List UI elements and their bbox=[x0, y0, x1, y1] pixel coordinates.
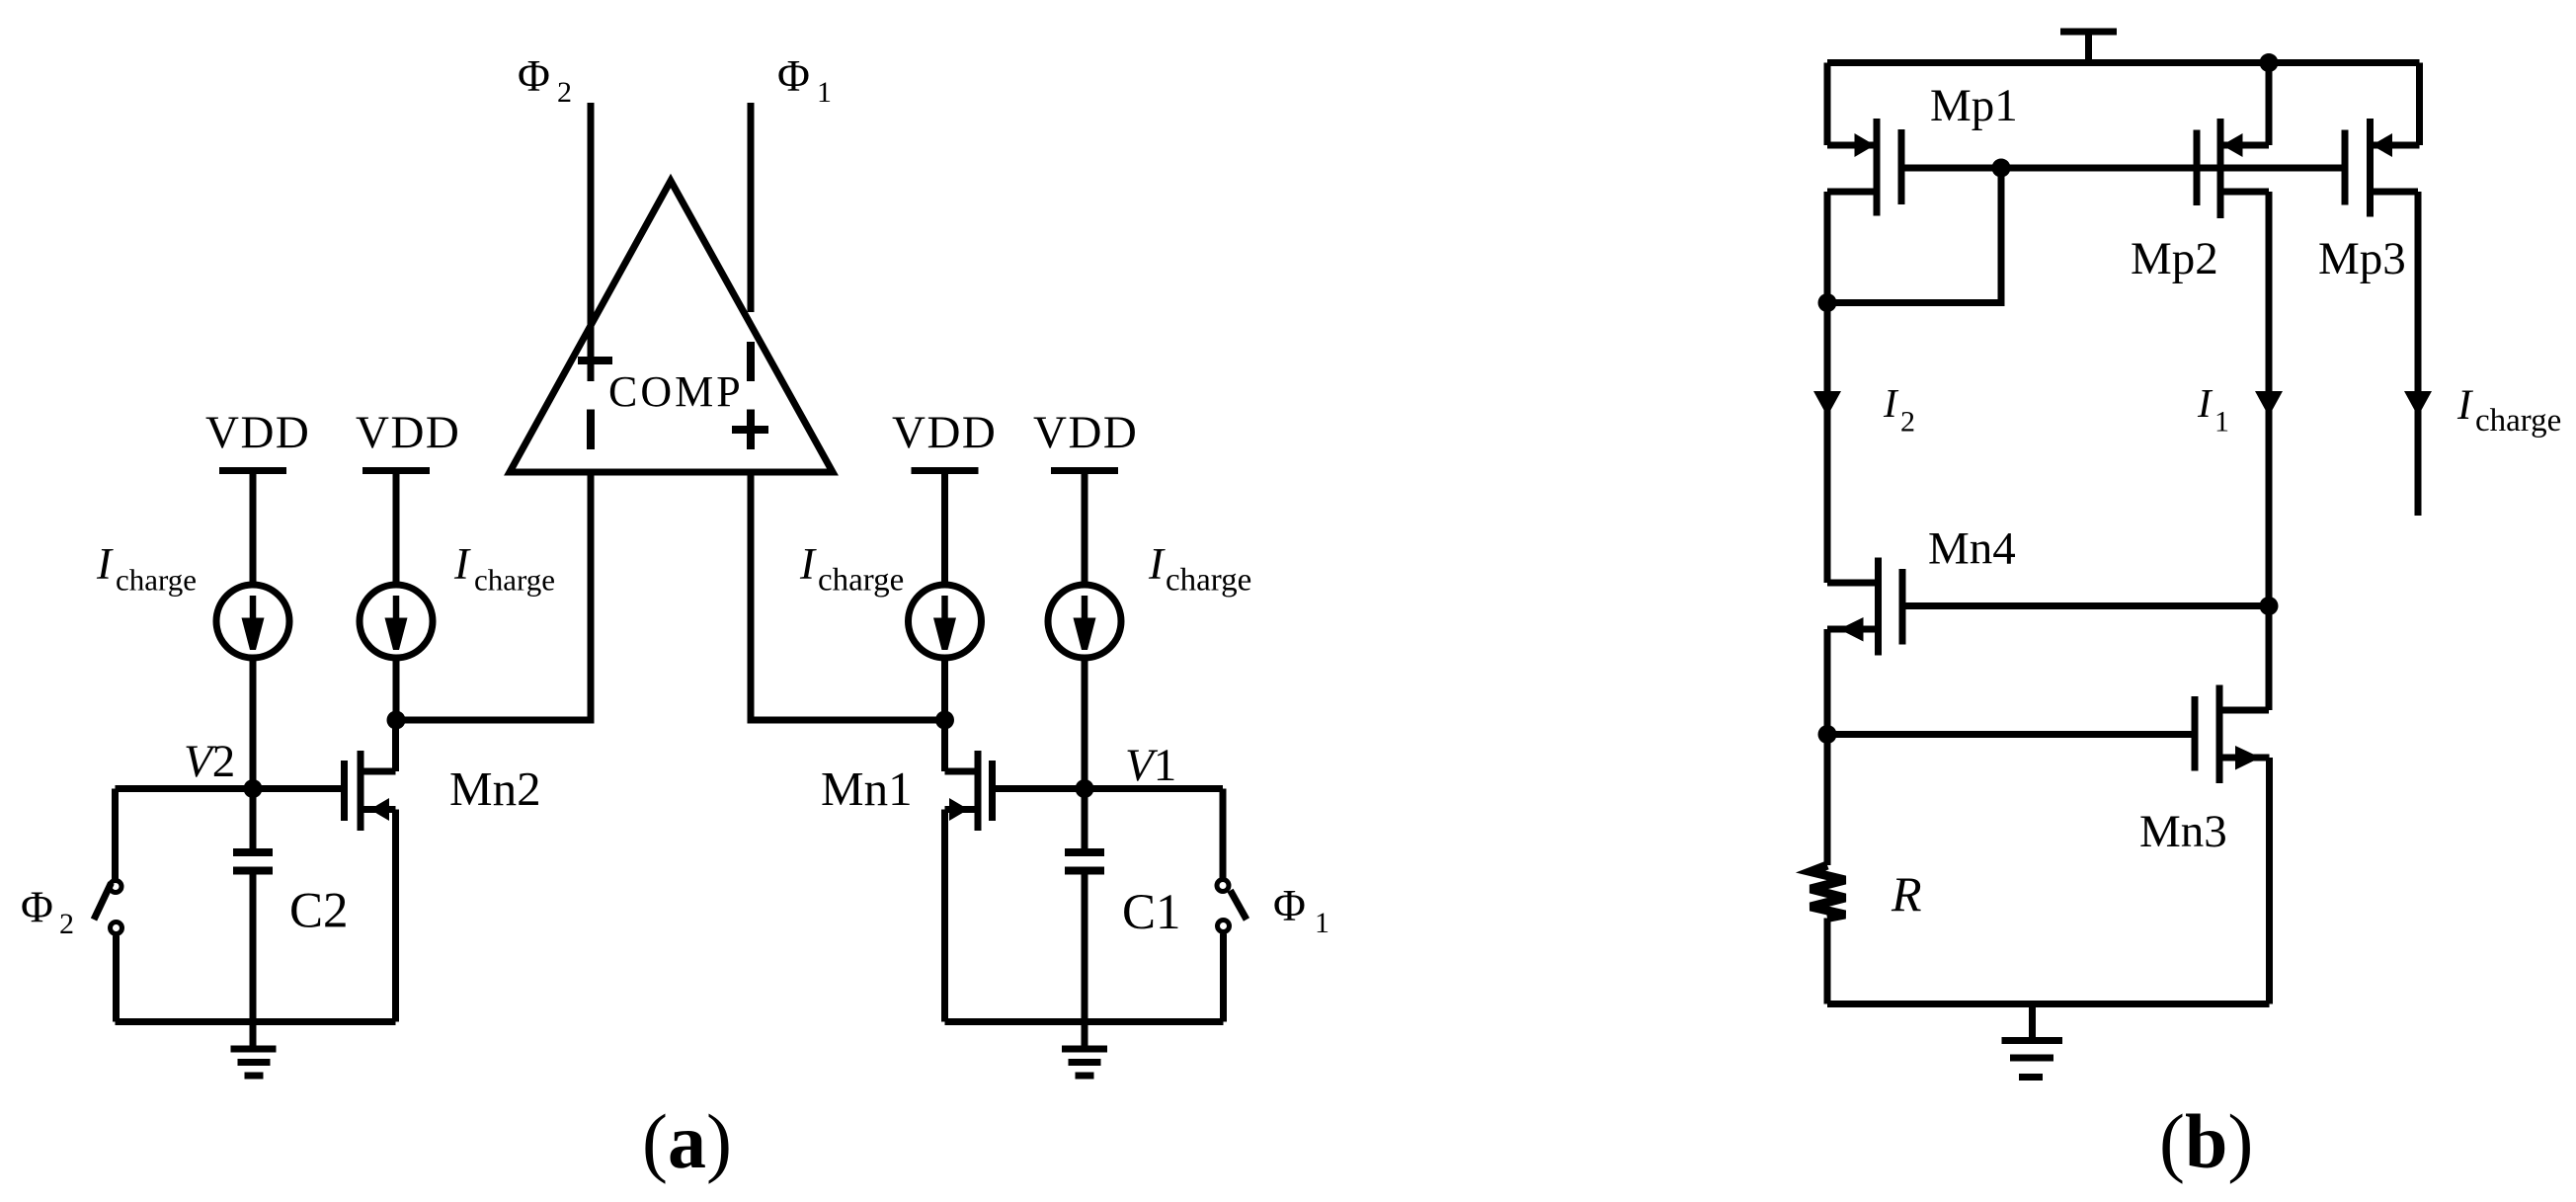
wire V1 horizontal bbox=[993, 785, 1224, 792]
label PHI1 top bbox=[777, 51, 832, 109]
svg-text:2: 2 bbox=[1900, 406, 1915, 439]
svg-text:V1: V1 bbox=[1125, 740, 1176, 791]
power VDD symbol 4 bbox=[1033, 407, 1138, 585]
svg-text:VDD: VDD bbox=[892, 407, 997, 458]
svg-text:Φ: Φ bbox=[21, 883, 53, 932]
wire rail to Mp2 source bbox=[2266, 63, 2273, 146]
wire Mp1 diode connection bbox=[1827, 168, 2001, 303]
svg-text:1: 1 bbox=[2214, 406, 2229, 439]
wire bottom rail right bbox=[945, 1018, 1224, 1025]
current source Icharge 4 bbox=[1048, 585, 1121, 788]
svg-text:(a): (a) bbox=[642, 1098, 732, 1184]
svg-text:VDD: VDD bbox=[1033, 407, 1138, 458]
wire Mn4 gate to I1 bbox=[1902, 602, 2269, 609]
capacitor C2 bbox=[233, 789, 273, 1022]
switch PHI1 bbox=[1217, 789, 1247, 1022]
wire top VDD rail bbox=[1827, 59, 2420, 66]
wire comparator right input down to Mn1 drain node bbox=[751, 472, 945, 720]
label Icharge 4 bbox=[1148, 539, 1251, 599]
node junction dot V1 bbox=[1076, 779, 1094, 798]
svg-text:I: I bbox=[96, 539, 114, 589]
wire gate bus Mp1-Mp2-Mp3 bbox=[1901, 165, 2345, 172]
transistor Mp3 bbox=[2345, 119, 2420, 217]
node junction dot V2 bbox=[244, 779, 263, 798]
node junction dot Mn4 gate bbox=[2260, 597, 2279, 615]
arrow I2 current direction bbox=[1813, 391, 1841, 417]
svg-text:I: I bbox=[1883, 380, 1899, 426]
transistor Mn4 bbox=[1827, 558, 1902, 866]
svg-text:Φ: Φ bbox=[777, 51, 810, 101]
wire rail to Mp1 source bbox=[1824, 63, 1831, 146]
label I1 bbox=[2197, 380, 2229, 439]
svg-text:COMP: COMP bbox=[608, 367, 744, 416]
node junction dot top rail bbox=[2260, 53, 2279, 72]
arrow Icharge current direction bbox=[2404, 391, 2432, 417]
node PHI2 clock input line bbox=[578, 103, 612, 449]
svg-text:charge: charge bbox=[474, 563, 555, 598]
label I2 bbox=[1883, 380, 1915, 439]
svg-text:I: I bbox=[453, 539, 471, 589]
svg-text:Mn2: Mn2 bbox=[449, 761, 541, 816]
wire bottom rail left bbox=[116, 1018, 396, 1025]
svg-text:charge: charge bbox=[818, 563, 904, 599]
wire Icharge branch bbox=[2415, 192, 2422, 516]
node PHI1 clock input line bbox=[732, 103, 768, 449]
capacitor C1 bbox=[1065, 789, 1104, 1022]
ground below C2 bbox=[231, 1022, 277, 1077]
transistor Mn3 bbox=[2195, 685, 2270, 1004]
svg-text:V2: V2 bbox=[184, 736, 235, 787]
label Icharge 3 bbox=[799, 539, 904, 599]
node junction dot Mn2 drain bbox=[387, 711, 406, 730]
wire ground rail b bbox=[1827, 1001, 2270, 1007]
power VDD symbol b bbox=[2060, 32, 2117, 63]
svg-text:R: R bbox=[1891, 866, 1922, 922]
transistor Mp2 bbox=[2197, 119, 2269, 218]
transistor Mn2 bbox=[345, 720, 396, 1022]
svg-text:charge: charge bbox=[116, 563, 197, 598]
svg-text:charge: charge bbox=[1166, 563, 1251, 599]
svg-text:1: 1 bbox=[1315, 907, 1329, 939]
current source Icharge 1 bbox=[216, 585, 289, 788]
svg-text:VDD: VDD bbox=[356, 407, 460, 458]
node junction dot gate bus bbox=[1992, 159, 2011, 178]
svg-text:Mp3: Mp3 bbox=[2318, 233, 2406, 284]
transistor Mn1 bbox=[945, 720, 993, 1022]
label Icharge 1 bbox=[96, 539, 197, 598]
node junction dot Mn3 gate bbox=[1818, 725, 1837, 744]
wire Mn3 gate bbox=[1827, 731, 2195, 738]
svg-text:I: I bbox=[2197, 380, 2214, 426]
svg-text:2: 2 bbox=[59, 908, 74, 940]
label Icharge 2 bbox=[453, 539, 555, 598]
label PHI1 bottom bbox=[1273, 881, 1329, 939]
svg-text:Mn4: Mn4 bbox=[1928, 523, 2016, 575]
transistor Mp1 bbox=[1827, 119, 1901, 303]
svg-text:I: I bbox=[1148, 539, 1166, 589]
arrow I1 current direction bbox=[2255, 391, 2283, 417]
node junction dot Mp1 drain bbox=[1818, 293, 1837, 312]
power VDD symbol 3 bbox=[892, 407, 997, 585]
svg-text:1: 1 bbox=[817, 76, 832, 109]
svg-text:Φ: Φ bbox=[1273, 881, 1306, 930]
svg-text:2: 2 bbox=[557, 76, 572, 109]
label PHI2 bottom bbox=[21, 883, 74, 941]
svg-text:VDD: VDD bbox=[205, 407, 310, 458]
current source Icharge 3 bbox=[909, 585, 982, 720]
node junction dot Mn1 drain bbox=[935, 711, 954, 730]
power VDD symbol 1 bbox=[205, 407, 310, 585]
label Icharge b bbox=[2456, 382, 2561, 439]
power VDD symbol 2 bbox=[356, 407, 460, 585]
wire I1 branch bbox=[2266, 192, 2273, 710]
svg-text:Mp2: Mp2 bbox=[2131, 233, 2218, 284]
svg-text:C1: C1 bbox=[1122, 885, 1181, 940]
wire I2 branch bbox=[1824, 303, 1831, 584]
svg-text:Mn1: Mn1 bbox=[821, 761, 913, 816]
svg-text:C2: C2 bbox=[289, 884, 349, 939]
resistor R bbox=[1811, 865, 1845, 1004]
ground below C1 bbox=[1062, 1022, 1107, 1077]
wire comparator left input down to Mn2 drain node bbox=[396, 472, 591, 720]
svg-text:(b): (b) bbox=[2159, 1098, 2253, 1184]
wire rail to Mp3 source bbox=[2416, 63, 2423, 146]
label PHI2 top bbox=[518, 51, 572, 109]
svg-text:I: I bbox=[799, 539, 817, 589]
svg-text:Mp1: Mp1 bbox=[1930, 80, 2018, 131]
svg-text:I: I bbox=[2456, 382, 2473, 429]
svg-text:charge: charge bbox=[2475, 403, 2561, 439]
switch PHI2 bbox=[94, 789, 122, 1022]
op-amp U1 comparator COMP triangle bbox=[510, 181, 833, 472]
svg-text:Φ: Φ bbox=[518, 51, 550, 101]
current source Icharge 2 bbox=[360, 585, 433, 720]
wire V2 horizontal bbox=[116, 785, 345, 792]
svg-text:Mn3: Mn3 bbox=[2139, 806, 2227, 857]
ground symbol b bbox=[2002, 1004, 2063, 1078]
